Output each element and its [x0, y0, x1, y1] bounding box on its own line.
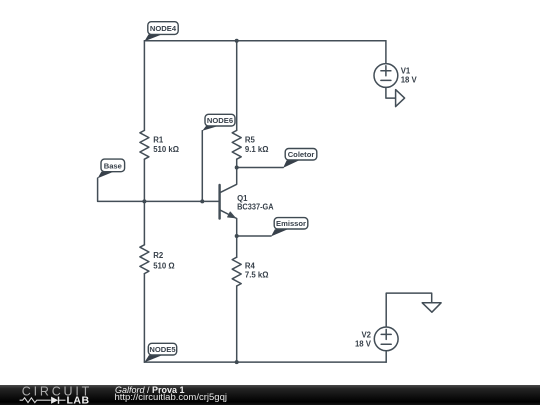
- wire R4 to bottom rail: [236, 286, 238, 362]
- svg-text:R5: R5: [245, 135, 256, 144]
- footer credit text: [115, 382, 185, 398]
- transistor Q1: [220, 168, 237, 237]
- svg-text:V2: V2: [361, 330, 371, 339]
- svg-text:9.1 kΩ: 9.1 kΩ: [245, 145, 269, 154]
- wire emitter node to Emissor flag: [237, 235, 271, 237]
- svg-text:NODE6: NODE6: [207, 116, 233, 125]
- ground above V2: [422, 303, 441, 312]
- svg-text:18 V: 18 V: [401, 76, 418, 85]
- node Emissor flag: [271, 218, 308, 237]
- wire bottom rail NODE5 to V2: [144, 361, 386, 363]
- label V1 value: [401, 67, 418, 85]
- wire left vertical lower: [143, 274, 145, 363]
- junction top rail / R5 branch: [235, 39, 239, 43]
- wire V1 to ground: [386, 87, 396, 98]
- svg-text:Emissor: Emissor: [276, 219, 306, 228]
- node NODE4 flag: [144, 22, 178, 42]
- wire emitter node to R4: [236, 236, 238, 257]
- svg-text:510 Ω: 510 Ω: [153, 261, 174, 270]
- junction emitter node: [235, 234, 239, 238]
- wire left vertical upper: [143, 41, 145, 131]
- node Coletor flag: [283, 149, 317, 168]
- node NODE6 flag: [202, 114, 235, 131]
- wire left vertical middle: [143, 159, 145, 245]
- resistor R4: [232, 257, 241, 286]
- svg-text:NODE4: NODE4: [150, 24, 177, 33]
- svg-text:V1: V1: [401, 67, 411, 76]
- wire collector node to Coletor flag: [237, 167, 283, 169]
- wire NODE6 drop: [201, 131, 203, 202]
- svg-text:R1: R1: [153, 135, 164, 144]
- label R4 value: [245, 261, 269, 279]
- svg-text:7.5 kΩ: 7.5 kΩ: [245, 271, 269, 280]
- svg-text:510 kΩ: 510 kΩ: [153, 145, 179, 154]
- wire V1 top lead: [385, 41, 387, 64]
- label V2 value: [355, 330, 372, 348]
- junction collector node: [235, 166, 239, 170]
- label R1 value: [153, 135, 179, 154]
- junction bottom rail / R4 branch: [235, 360, 239, 364]
- wire R5 to collector node: [236, 159, 238, 167]
- junction base / R1-R2: [142, 199, 146, 203]
- svg-text:R2: R2: [153, 251, 164, 260]
- svg-text:BC337-GA: BC337-GA: [237, 203, 274, 212]
- voltage source V1: [374, 64, 398, 88]
- svg-text:Base: Base: [104, 162, 122, 171]
- voltage source V2: [374, 327, 398, 351]
- wire middle vertical top: [236, 41, 238, 131]
- label R2 value: [153, 251, 174, 270]
- svg-text:NODE5: NODE5: [149, 345, 176, 354]
- footer bar: [0, 385, 540, 405]
- node NODE5 flag: [144, 343, 176, 362]
- svg-text:R4: R4: [245, 261, 256, 270]
- wire V2 bottom lead: [385, 351, 387, 362]
- wire V2 top to ground: [386, 293, 432, 327]
- svg-text:LAB: LAB: [67, 394, 90, 405]
- svg-text:18 V: 18 V: [355, 340, 372, 349]
- label R5 value: [245, 135, 269, 154]
- resistor R5: [232, 130, 241, 159]
- node Base flag: [98, 159, 125, 178]
- junction base / NODE6: [200, 199, 204, 203]
- CircuitLab logo: [20, 384, 92, 405]
- resistor R2: [140, 245, 149, 274]
- wire Base flag to base node: [98, 178, 219, 201]
- wire top rail NODE4 to V1: [144, 40, 386, 42]
- label Q1 value: [237, 194, 274, 211]
- resistor R1: [140, 130, 149, 159]
- svg-text:Coletor: Coletor: [288, 150, 315, 159]
- ground right of V1: [396, 90, 405, 107]
